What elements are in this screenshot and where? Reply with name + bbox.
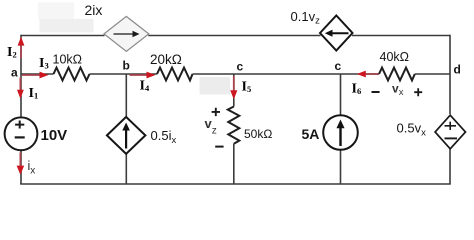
dependent current source 2ix diamond <box>104 16 149 51</box>
resistor R 40k zigzag <box>379 68 415 81</box>
50k minus label <box>215 146 223 148</box>
current arrow I3 (right, node a to 10k) <box>22 72 49 79</box>
wire bottom <box>20 183 451 185</box>
wire node b rail upper (to 0.5ix source) <box>125 74 127 118</box>
wire left rail lower (10V source to bottom wire) <box>20 151 22 185</box>
svg-text:I1: I1 <box>29 86 39 101</box>
vx minus label <box>372 91 380 93</box>
svg-text:vx: vx <box>392 81 404 98</box>
svg-text:I6: I6 <box>352 82 362 97</box>
wire middle: 20k to node c to 5A rail to 40k <box>193 73 380 75</box>
wire 5A rail upper (node c to 5A source) <box>340 74 342 116</box>
svg-text:a: a <box>11 66 18 80</box>
wire left rail upper (top wire down to 10V source) <box>20 35 22 117</box>
svg-text:vz: vz <box>205 116 217 136</box>
resistor R 50k vertical zigzag <box>228 107 240 144</box>
svg-text:0.5vx: 0.5vx <box>397 121 427 139</box>
current arrow I2 (up, left rail) <box>18 37 25 59</box>
wire node c rail upper (to 50k resistor) <box>233 74 235 107</box>
50k plus label <box>212 108 220 116</box>
current arrow I4 (right, node b to 20k) <box>130 72 156 79</box>
svg-text:5A: 5A <box>302 126 320 142</box>
resistor R 10k zigzag <box>54 68 90 81</box>
svg-text:b: b <box>123 59 130 73</box>
wire node b rail lower (0.5ix source to bottom) <box>125 154 127 185</box>
svg-text:d: d <box>454 63 461 77</box>
wire top-right segment <box>352 35 450 37</box>
erased label patch top-left <box>38 3 74 20</box>
wire top-middle segment <box>148 35 320 37</box>
wire right rail upper (top wire to node d) <box>449 35 451 74</box>
current source 5A circle <box>323 115 358 150</box>
vx plus label <box>414 88 422 96</box>
current arrow ix (down, below 10V source) <box>17 153 25 175</box>
svg-text:c: c <box>237 60 244 74</box>
current arrow I1 (down, below node a) <box>17 78 24 99</box>
dependent current source 0.1vz diamond <box>320 16 353 51</box>
svg-text:ix: ix <box>28 159 36 177</box>
voltage source 10V circle <box>5 117 38 150</box>
wire middle: 40k to node d <box>415 73 450 75</box>
svg-text:10V: 10V <box>41 127 68 144</box>
wire right rail middle (node d down to 0.5vx source) <box>449 74 451 114</box>
dependent voltage source 0.5vx diamond <box>435 115 465 149</box>
current arrow I6 (left, toward node c) <box>357 71 379 78</box>
wire right rail lower (0.5vx source to bottom) <box>449 149 451 185</box>
svg-text:I2: I2 <box>7 45 17 60</box>
svg-text:I4: I4 <box>140 79 150 94</box>
erased label patch near node c <box>200 77 231 95</box>
wire middle: 10k to node b and on to 20k <box>90 73 158 75</box>
svg-text:50kΩ: 50kΩ <box>244 127 272 141</box>
svg-text:I5: I5 <box>242 80 252 95</box>
wire node c rail lower (50k to bottom) <box>233 144 235 184</box>
svg-text:2ix: 2ix <box>85 2 103 18</box>
svg-text:0.1vz: 0.1vz <box>291 9 321 27</box>
svg-text:20kΩ: 20kΩ <box>150 52 182 67</box>
svg-text:10kΩ: 10kΩ <box>53 53 83 67</box>
resistor R 20k zigzag <box>157 68 193 81</box>
wire middle: node a to 10k resistor <box>21 73 54 75</box>
wire 5A rail lower (5A source to bottom) <box>340 150 342 184</box>
svg-text:I3: I3 <box>39 56 49 71</box>
wire top-left segment <box>21 35 105 37</box>
svg-text:40kΩ: 40kΩ <box>380 50 410 64</box>
svg-text:c: c <box>335 59 342 73</box>
current arrow I5 (down, node c into 50k) <box>230 76 237 100</box>
svg-text:0.5ix: 0.5ix <box>151 128 177 146</box>
dependent current source 0.5ix diamond <box>107 117 145 154</box>
